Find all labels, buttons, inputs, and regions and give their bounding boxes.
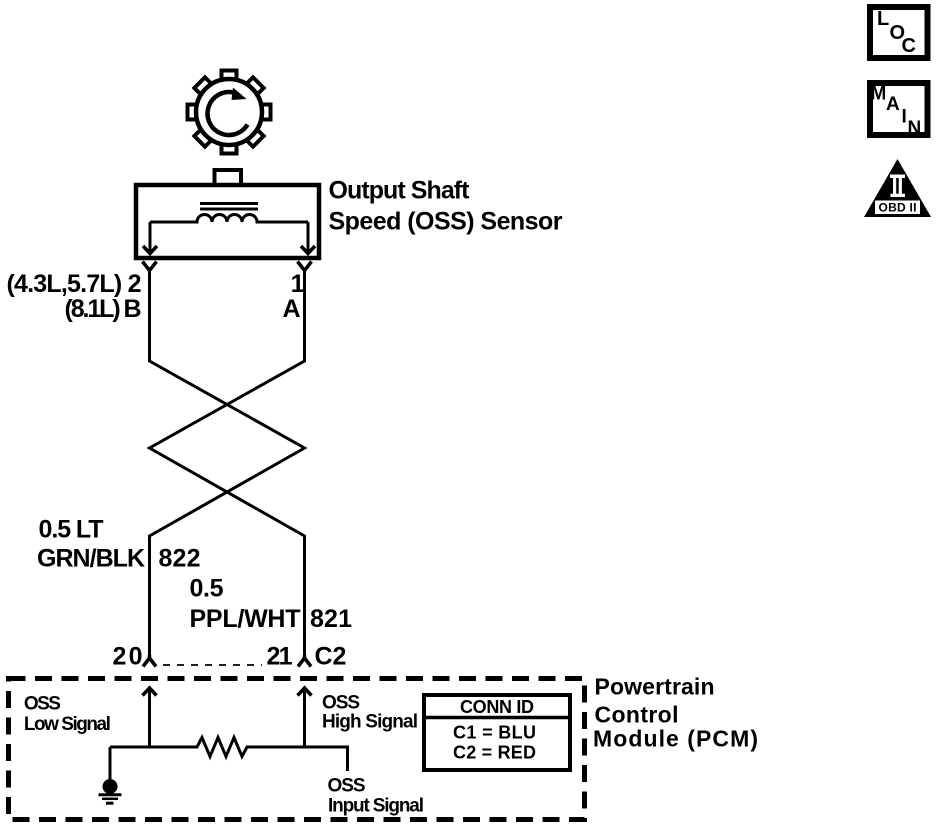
svg-text:0.5 LT: 0.5 LT <box>39 516 104 544</box>
svg-text:Input Signal: Input Signal <box>328 796 424 817</box>
svg-text:OSS: OSS <box>322 693 360 714</box>
svg-text:C: C <box>902 35 916 57</box>
svg-text:N: N <box>908 118 922 139</box>
svg-text:Speed (OSS) Sensor: Speed (OSS) Sensor <box>329 208 563 236</box>
svg-text:L: L <box>877 8 889 30</box>
svg-text:Low Signal: Low Signal <box>24 714 111 735</box>
svg-text:OBD II: OBD II <box>879 201 917 215</box>
svg-text:Powertrain: Powertrain <box>595 674 715 700</box>
svg-text:821: 821 <box>310 605 352 633</box>
svg-text:OSS: OSS <box>328 776 366 797</box>
svg-text:GRN/BLK: GRN/BLK <box>37 545 145 573</box>
svg-text:A: A <box>886 94 900 115</box>
svg-text:OSS: OSS <box>24 694 61 715</box>
svg-text:PPL/WHT: PPL/WHT <box>190 605 301 633</box>
svg-text:I: I <box>902 107 907 128</box>
svg-text:0.5: 0.5 <box>190 575 224 603</box>
svg-text:Output Shaft: Output Shaft <box>329 177 471 205</box>
svg-text:(4.3L,5.7L) 2: (4.3L,5.7L) 2 <box>7 270 142 298</box>
svg-text:High Signal: High Signal <box>322 712 418 733</box>
svg-text:(8.1L) B: (8.1L) B <box>65 295 142 323</box>
svg-text:Control: Control <box>595 702 679 728</box>
svg-text:CONN ID: CONN ID <box>460 697 534 717</box>
svg-text:822: 822 <box>159 545 201 573</box>
svg-text:Module (PCM): Module (PCM) <box>593 726 758 752</box>
svg-text:M: M <box>871 84 887 105</box>
svg-text:21: 21 <box>267 643 293 671</box>
svg-text:C1 = BLU: C1 = BLU <box>453 723 536 743</box>
svg-text:1: 1 <box>291 270 305 298</box>
svg-text:A: A <box>282 295 300 323</box>
svg-text:C2 = RED: C2 = RED <box>453 743 536 763</box>
svg-text:C2: C2 <box>315 643 347 671</box>
